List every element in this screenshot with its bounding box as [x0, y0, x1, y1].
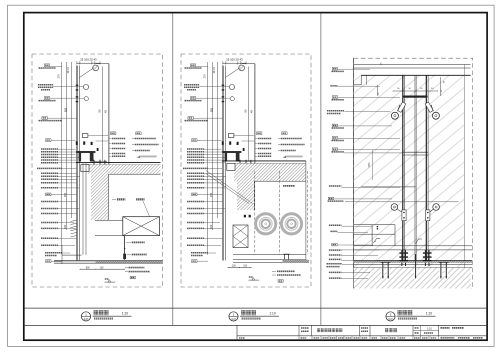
panel 1 pocket bottom lines [95, 220, 123, 222]
label band bottom line [24, 324, 487, 326]
panel 2 secondary interior line [248, 67, 250, 162]
svg-text:100: 100 [100, 266, 105, 269]
title block left edge [236, 325, 238, 340]
panel 2 mid spider fitting circle [229, 84, 234, 89]
panel 3 mid ceiling line [361, 186, 416, 188]
panel 1 floor band top line [54, 260, 162, 262]
panel 2 top connector line [242, 63, 255, 65]
panel 1 slab hatch band [88, 165, 161, 175]
panel 2 transom box marker [228, 134, 234, 138]
svg-text:170: 170 [57, 74, 61, 79]
panel 3 lower hanger circle right [433, 204, 440, 211]
title block cell: drawing-name label [361, 327, 368, 329]
panel 1 dashed border [32, 54, 163, 287]
panel 3 mullion left pair [402, 75, 404, 260]
svg-text:28 15: 28 15 [213, 67, 216, 74]
panel 2 right label stack A [257, 132, 262, 135]
panel 1 transom box marker [82, 134, 88, 138]
panel 2 top dim extension lines [222, 61, 224, 65]
section title text 2 (Pou Mian Tu) [241, 310, 246, 315]
panel 1 tie rod anchor block [123, 254, 126, 260]
panel 2 bottom dimension line [228, 267, 251, 269]
section title underline 2 [240, 315, 279, 317]
svg-text:28 15: 28 15 [67, 67, 70, 74]
panel 1 glass pane outer line [76, 66, 78, 261]
panel 3 header steel bar [403, 96, 428, 98]
title block cell: owner label [301, 327, 309, 329]
panel 2 vertical dim line c [216, 62, 218, 218]
panel 3 content right edge [463, 65, 465, 289]
panel 1 transom dark band [76, 151, 95, 153]
panel 2 rosette section right [281, 214, 301, 234]
panel 1 elevation marker [108, 280, 111, 283]
svg-text:3-07: 3-07 [84, 319, 89, 321]
panel 1 vertical dim line b [66, 62, 68, 230]
panel 3 lower hanger circle left [391, 204, 398, 211]
panel 2 glass pane inner line [225, 66, 227, 261]
panel 1 right label stack A [111, 132, 116, 135]
section title text 1 (Pou Mian Tu) [94, 310, 99, 315]
svg-text:382: 382 [210, 107, 214, 112]
panel 2 lower fitting circle [230, 97, 234, 101]
panel 3 anchor bolt centre [415, 254, 417, 279]
panel 3 long leader line [345, 201, 459, 203]
panel 1 top spider fitting circle [93, 65, 99, 71]
panel 3 soffit step vertical [360, 75, 362, 85]
panel 3 top hanger circle right [432, 112, 439, 119]
panel 2 glass fin dashed centrelines [254, 171, 256, 255]
svg-text:100: 100 [243, 265, 248, 268]
panel 2 floor finish textured strip [283, 260, 310, 263]
label band top line [24, 307, 487, 309]
section callout circle 2 [229, 312, 238, 321]
title block cell: drawing name Pou Mian Tu [385, 328, 389, 332]
sheet column divider 1 [172, 13, 174, 325]
panel 3 floor band [354, 260, 472, 262]
panel 1 slab pocket outline [108, 174, 110, 220]
panel 2 pocket outline [253, 181, 255, 210]
svg-text:150: 150 [209, 192, 213, 197]
title block mid horizontal divider [237, 335, 487, 337]
panel 1 firestop label (fang huo feng du) [136, 198, 144, 200]
panel 3 weld symbol left [373, 239, 376, 244]
panel 2 glass pane outer line [222, 66, 224, 261]
panel 2 content right edge [305, 161, 307, 263]
svg-text:2: 2 [233, 312, 235, 316]
panel 3 base assembly right [424, 250, 426, 266]
panel 2 slab hatch band [234, 163, 306, 181]
svg-text:1: 1 [85, 312, 87, 316]
panel 2 transom posts [225, 153, 228, 162]
panel 3 lower horizontal 2 [354, 249, 472, 251]
panel 1 transom bolt blobs [76, 141, 78, 145]
panel 2 slab hatch left column [237, 181, 254, 210]
panel 1 serration ticks on mullion [71, 220, 77, 222]
panel 2 small posts on floor [284, 255, 286, 260]
panel 2 right label stack B [282, 132, 287, 135]
svg-text:100: 100 [232, 265, 237, 268]
panel 2 diagonal leaders to glass fin [206, 171, 253, 204]
panel 3 left drawing edge [353, 58, 355, 288]
panel 3 soffit step line [354, 84, 362, 86]
panel 1 tie rod support label [132, 254, 147, 256]
panel 2 transom bolt blobs [222, 141, 224, 145]
panel 2 top dimension line [223, 62, 246, 64]
panel 1 interior finish line [108, 64, 110, 175]
panel 1 insulation label (bao wen yan mian) [117, 198, 125, 200]
panel 1 slab top line [76, 162, 161, 164]
panel 1 transom posts [79, 153, 82, 162]
panel 2 anchor bolts at slab top [239, 160, 241, 169]
panel 3 lower hanger link right [426, 210, 430, 221]
panel 1 floor finish textured strip [96, 261, 163, 263]
panel 2 glass clamp marks [222, 85, 225, 86]
panel 1 glass-to-fitting diagonal [79, 67, 94, 77]
panel 1 glass clamp marks [76, 85, 79, 86]
panel 3 left label column [332, 67, 337, 70]
panel 1 slab second line [88, 164, 161, 166]
svg-text:170: 170 [203, 74, 207, 79]
section subtitle 2 [242, 317, 261, 319]
panel 3 sill box [354, 224, 395, 226]
panel 1 mid spider fitting circle [83, 84, 88, 89]
panel 3 lower horizontal 1 [354, 245, 472, 247]
panel 2 vertical dim line a [207, 62, 209, 255]
panel 2 right stack gray strip with arrow [286, 156, 303, 158]
panel 2 vertical dim line b [212, 62, 214, 230]
panel 1 sill line [62, 254, 82, 256]
panel 3 anchor bolts right pair [440, 262, 442, 279]
panel 1 beam section box with cross [123, 217, 160, 236]
svg-text:25 100 25 43: 25 100 25 43 [80, 57, 97, 61]
panel 2 interior finish line [254, 64, 256, 175]
panel 3 left leader mid [344, 152, 403, 154]
panel 2 bottom right labels [277, 270, 295, 272]
panel 1 bottom dimension line [80, 268, 125, 270]
panel 2 connection leaders [234, 135, 254, 137]
panel 1 secondary interior line [102, 67, 104, 162]
svg-text:3-07: 3-07 [388, 319, 393, 321]
svg-text:1500: 1500 [369, 162, 371, 168]
panel 2 dashed border [181, 54, 311, 287]
panel 3 weld symbol right [416, 239, 419, 244]
panel 1 embed channel in slab [81, 165, 89, 172]
panel 3 sill bolts [377, 226, 379, 228]
panel 3 top hanger link left [398, 102, 406, 112]
panel 1 vertical dim line c [70, 62, 72, 218]
panel 1 lower fitting circle [84, 97, 88, 101]
panel 3 centre mullion pair [414, 75, 416, 260]
panel 2 truss column with X bracing [233, 225, 248, 248]
panel 1 mullion lower verticals [82, 163, 84, 255]
panel 3 ceiling line 2 [354, 67, 471, 69]
panel 2 elevation marker [252, 278, 255, 281]
panel 1 vertical dim line a [61, 62, 63, 255]
panel 1 bottom right labels [129, 267, 145, 269]
panel 2 slab top line [222, 160, 306, 162]
section callout circle 3 [386, 312, 395, 321]
panel 1 connection leaders [88, 135, 108, 137]
section title text 3 (Pou Mian Tu) [398, 310, 403, 315]
section subtitle 1 [94, 317, 113, 319]
panel 1 top connector line [96, 63, 109, 65]
title block drawing number cell [441, 327, 450, 329]
panel 2 left label column [190, 64, 195, 67]
sheet column divider 2 [320, 13, 322, 325]
svg-text:3: 3 [390, 312, 392, 316]
panel 3 lower hanger link left [402, 210, 406, 221]
title block bottom row vertical dividers [298, 336, 300, 340]
panel 3 foundation hatch [354, 268, 471, 289]
svg-text:25 100 25 43: 25 100 25 43 [226, 57, 243, 61]
panel 1 glass pane inner line [79, 66, 81, 261]
panel 3 header top dim line [393, 90, 438, 92]
panel 3 dashed border [354, 58, 473, 288]
panel 3 glass hatch field [354, 76, 464, 267]
panel 2 transom dark band [222, 151, 241, 153]
panel 1 anchor bolts at slab top [93, 160, 95, 169]
panel 1 sill vertical [61, 245, 63, 264]
svg-text:382: 382 [64, 107, 68, 112]
panel 3 step inner vertical [366, 75, 368, 85]
panel 1 right stack gray strip with arrow [140, 156, 157, 158]
title block top-row vertical dividers [298, 325, 300, 335]
panel 3 ceiling line 1 [354, 64, 471, 66]
panel 2 floor lines [233, 254, 306, 256]
panel 2 bolt marks [244, 215, 246, 218]
section callout circle 1 [81, 312, 90, 321]
svg-text:1:10: 1:10 [427, 328, 432, 331]
svg-text:1:10: 1:10 [426, 311, 432, 315]
panel 3 top hanger link right [425, 102, 433, 112]
svg-text:1:10: 1:10 [122, 311, 128, 315]
panel 2 rosette section left [256, 214, 276, 234]
panel 1 top dim extension lines [76, 61, 78, 65]
panel 3 top hanger circle left [391, 112, 398, 119]
section title underline 1 [93, 315, 132, 317]
panel 1 floor band bottom line [54, 262, 162, 264]
panel 3 ceiling line 3 (soffit) [361, 74, 470, 76]
panel 3 foundation hatch mask for bolts [381, 268, 384, 279]
panel 3 anchor bolts left pair [382, 262, 384, 279]
panel 1 right label stack B [136, 132, 141, 135]
svg-text:3-07: 3-07 [231, 319, 236, 321]
panel 3 transom lines [403, 151, 428, 153]
panel 1 tie rod label [132, 241, 145, 243]
panel 1 top dimension line [77, 62, 100, 64]
panel 1 left label column [44, 64, 49, 67]
panel 3 mullion right pair [425, 75, 427, 260]
panel 1 steel tie rod [124, 236, 126, 260]
title block bottom row tiny texts [239, 337, 245, 339]
panel 3 left rotated dim 15 [377, 85, 379, 96]
title block cell: project name Qingshaonian Huodong Zhongxin [317, 328, 320, 332]
panel 2 glass-to-fitting diagonal [225, 67, 240, 77]
section title underline 3 [397, 315, 436, 317]
panel 2 embed channel in slab [227, 163, 235, 170]
panel 2 pocket inner label [283, 185, 295, 187]
panel 1 slab hatch left column [91, 174, 109, 220]
section subtitle 3 [398, 317, 417, 319]
panel 3 right rotated dim 50 [440, 77, 442, 96]
svg-text:800: 800 [86, 266, 91, 269]
panel 2 slab second line [234, 162, 306, 164]
panel 3 base assembly left [401, 250, 403, 266]
title block scale/date sub-cells [420, 325, 422, 335]
svg-text:1:10: 1:10 [269, 311, 275, 315]
svg-text:150: 150 [63, 192, 67, 197]
panel 2 top spider fitting circle [239, 65, 245, 71]
